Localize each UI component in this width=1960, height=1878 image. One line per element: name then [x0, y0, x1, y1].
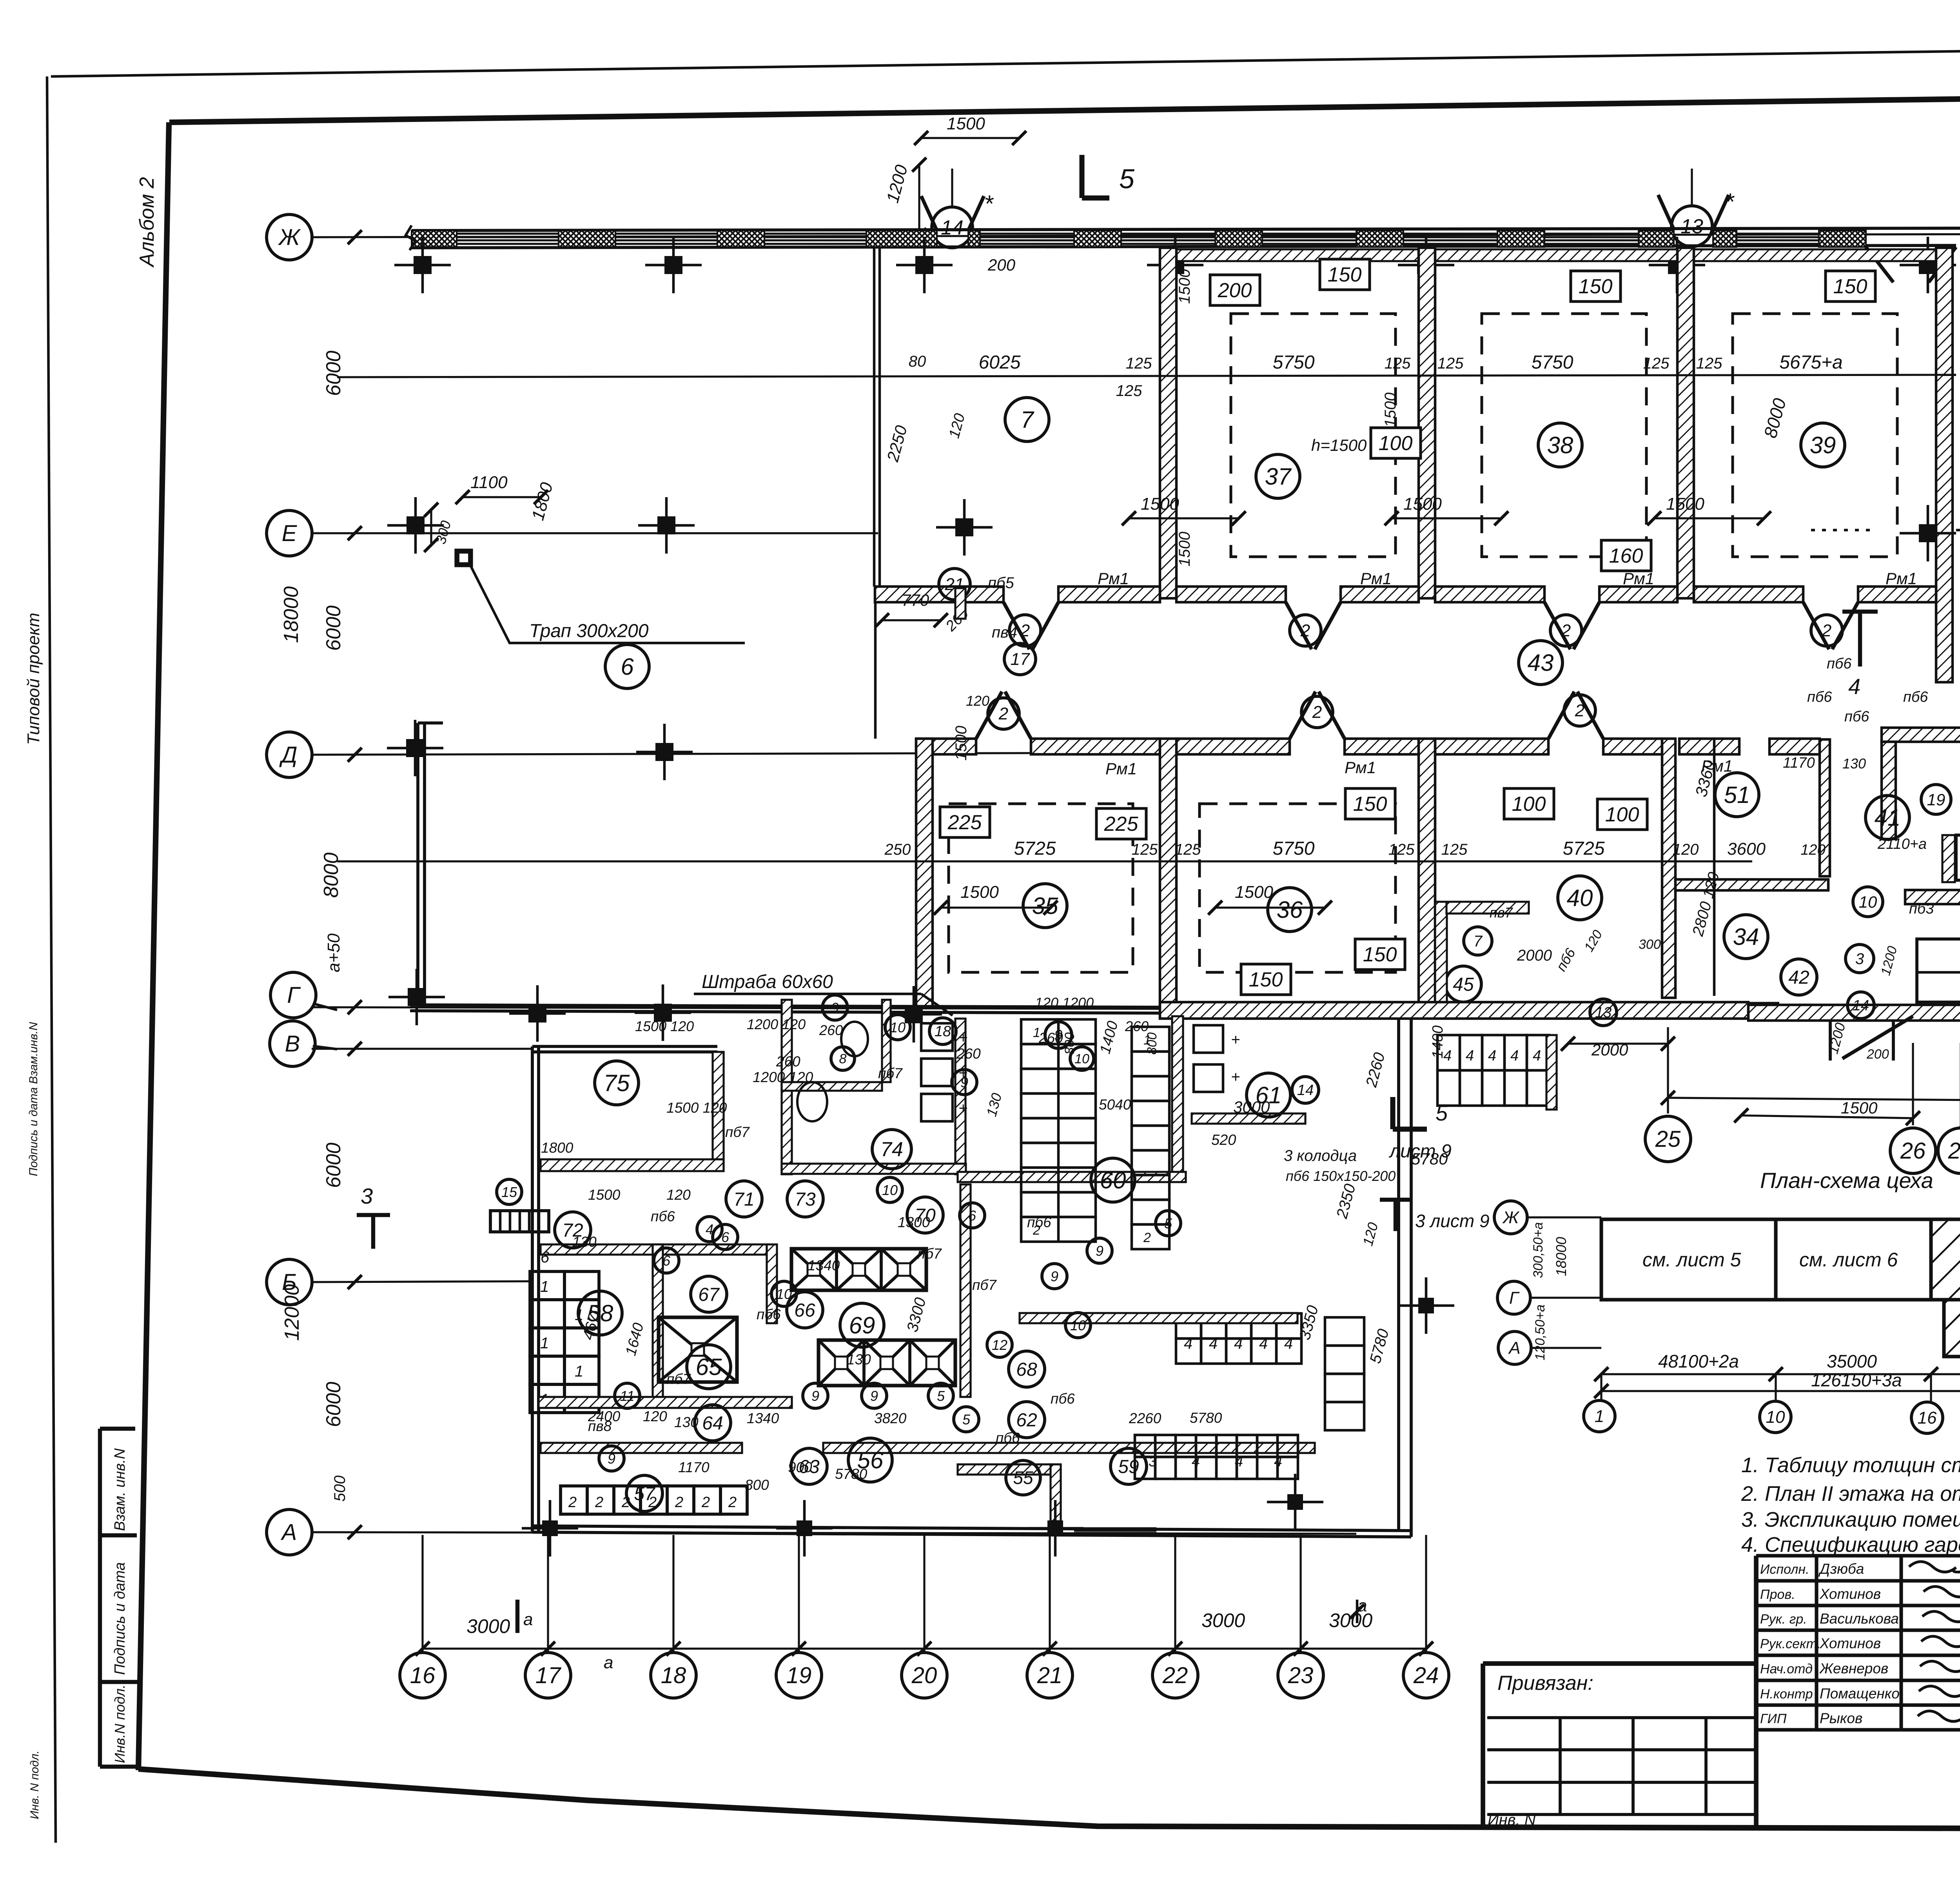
- svg-text:126150+3а: 126150+3а: [1811, 1370, 1902, 1390]
- svg-text:2. План II этажа на отм. 2: 2. План II этажа на отм. 2.780 в осях 27…: [1741, 1482, 1960, 1506]
- svg-text:Ж: Ж: [278, 225, 301, 250]
- svg-text:125: 125: [1126, 355, 1152, 372]
- svg-text:10: 10: [882, 1182, 898, 1198]
- svg-text:Д: Д: [279, 742, 298, 768]
- schema bottom circles: [1584, 1400, 1615, 1432]
- svg-text:80: 80: [909, 353, 926, 370]
- svg-text:68: 68: [1016, 1359, 1037, 1380]
- inner vertical walls: [767, 1244, 777, 1323]
- svg-text:+: +: [958, 1029, 967, 1046]
- svg-text:120 1200: 120 1200: [1035, 995, 1094, 1011]
- entry bottom cluster: [1829, 1019, 1832, 1061]
- svg-text:9: 9: [1096, 1243, 1103, 1259]
- svg-text:69: 69: [849, 1312, 875, 1339]
- svg-text:4: 4: [1209, 1335, 1218, 1352]
- svg-text:2: 2: [568, 1494, 577, 1511]
- svg-text:2: 2: [675, 1494, 683, 1511]
- room 75 walls: [713, 1052, 724, 1159]
- svg-text:1500: 1500: [1235, 883, 1273, 902]
- svg-text:17: 17: [535, 1663, 562, 1688]
- grids 59: [1176, 1313, 1201, 1339]
- svg-text:27: 27: [1948, 1138, 1960, 1164]
- X equipment rows 69: [791, 1249, 926, 1290]
- right-bottom axis circles 25-29: [1645, 1116, 1691, 1162]
- svg-text:Помащенко: Помащенко: [1820, 1685, 1900, 1702]
- svg-text:Рыков: Рыков: [1820, 1710, 1862, 1726]
- svg-text:пб6: пб6: [757, 1306, 781, 1322]
- svg-text:18000: 18000: [280, 586, 303, 643]
- svg-text:Жевнеров: Жевнеров: [1819, 1660, 1888, 1676]
- svg-text:2: 2: [1020, 621, 1030, 640]
- svg-text:125: 125: [1388, 841, 1415, 858]
- stair 52: [1956, 835, 1960, 880]
- svg-text:520: 520: [1211, 1132, 1236, 1148]
- svg-text:43: 43: [1528, 650, 1554, 676]
- svg-text:300,50+а: 300,50+а: [1531, 1222, 1546, 1278]
- svg-text:3000: 3000: [1201, 1609, 1245, 1631]
- svg-text:Ж: Ж: [1502, 1208, 1520, 1227]
- bottom locker row 57: [561, 1486, 587, 1514]
- svg-text:26: 26: [1900, 1138, 1926, 1164]
- wall 39/44: [1936, 248, 1953, 682]
- svg-text:41: 41: [1875, 805, 1901, 831]
- callouts middle: [940, 807, 990, 837]
- svg-text:250: 250: [884, 841, 911, 858]
- svg-text:1200 120: 1200 120: [753, 1069, 813, 1085]
- svg-text:а: а: [523, 1610, 533, 1629]
- svg-text:пб6: пб6: [1844, 708, 1869, 725]
- door openings at axes 14, 13 and near D: [921, 196, 937, 231]
- svg-text:1. Таблицу толщин стен см.: 1. Таблицу толщин стен см. лист 8: [1741, 1453, 1960, 1477]
- section mark 3 right: [1394, 1200, 1397, 1231]
- svg-text:2110+а: 2110+а: [1877, 836, 1927, 852]
- svg-text:500: 500: [331, 1475, 348, 1502]
- wall between room7 and 37: [1160, 248, 1176, 598]
- svg-text:пб6: пб6: [1027, 1214, 1051, 1230]
- svg-text:пб7: пб7: [666, 1371, 691, 1387]
- svg-text:8000: 8000: [320, 852, 343, 898]
- svg-text:2: 2: [1575, 701, 1584, 720]
- svg-text:10: 10: [776, 1286, 792, 1302]
- svg-text:1340: 1340: [747, 1410, 779, 1426]
- svg-text:100: 100: [1605, 803, 1639, 826]
- svg-text:150: 150: [1363, 943, 1397, 966]
- vertical cell strip right: [1325, 1317, 1364, 1346]
- sinks near 61: [1194, 1025, 1223, 1053]
- wall btw cluster and 60: [1172, 1016, 1183, 1174]
- svg-text:130: 130: [1842, 756, 1866, 772]
- svg-text:3 колодца: 3 колодца: [1284, 1147, 1357, 1164]
- svg-text:9: 9: [1054, 1027, 1062, 1044]
- rooms 51/34 column: [1715, 773, 1759, 817]
- svg-text:1500: 1500: [1403, 494, 1442, 514]
- svg-text:8: 8: [839, 1052, 847, 1066]
- svg-text:18: 18: [935, 1023, 951, 1040]
- thickness callouts top band: [1210, 275, 1260, 305]
- svg-text:5780: 5780: [1411, 1150, 1448, 1168]
- svg-text:пб6: пб6: [1051, 1391, 1075, 1407]
- room circles middle: [1023, 884, 1067, 928]
- svg-text:16: 16: [410, 1663, 436, 1688]
- svg-text:2260: 2260: [1129, 1410, 1161, 1426]
- svg-text:19: 19: [786, 1663, 812, 1688]
- svg-text:125: 125: [1643, 355, 1670, 372]
- interior columns hall: [407, 516, 425, 534]
- svg-text:20: 20: [911, 1663, 937, 1688]
- svg-text:2: 2: [1312, 703, 1322, 722]
- svg-text:5750: 5750: [1273, 352, 1315, 373]
- svg-text:150: 150: [1833, 275, 1867, 298]
- horizontal axis lines + circles: [312, 233, 1960, 237]
- svg-text:125: 125: [1116, 382, 1142, 400]
- corridor wall y3680: [541, 1443, 742, 1453]
- room circles block rest: [1009, 1402, 1045, 1438]
- svg-text:130: 130: [572, 1234, 597, 1250]
- svg-text:А: А: [1508, 1339, 1520, 1358]
- svg-text:120: 120: [966, 693, 989, 709]
- svg-text:7: 7: [1474, 933, 1483, 950]
- svg-text:6: 6: [721, 1229, 730, 1245]
- room 55 porch: [958, 1464, 1058, 1475]
- svg-text:Рм1: Рм1: [1886, 569, 1917, 588]
- svg-text:Альбом 2: Альбом 2: [136, 177, 158, 268]
- svg-text:5675+а: 5675+а: [1779, 352, 1843, 373]
- svg-text:40: 40: [1567, 885, 1593, 911]
- svg-text:9: 9: [870, 1388, 878, 1404]
- svg-text:130: 130: [674, 1414, 699, 1430]
- svg-text:71: 71: [733, 1189, 754, 1210]
- middle band walls vertical: [916, 739, 933, 1008]
- svg-text:Пров.: Пров.: [1760, 1587, 1795, 1602]
- svg-text:5040: 5040: [1099, 1097, 1131, 1113]
- svg-text:5750: 5750: [1273, 838, 1315, 859]
- svg-text:2: 2: [595, 1494, 603, 1511]
- svg-text:пб6: пб6: [651, 1208, 675, 1224]
- svg-text:1500: 1500: [1141, 494, 1179, 514]
- svg-text:1: 1: [1595, 1407, 1604, 1426]
- svg-text:10: 10: [1766, 1408, 1785, 1427]
- svg-text:120: 120: [643, 1408, 667, 1424]
- svg-text:пб6: пб6: [996, 1430, 1020, 1446]
- svg-text:1: 1: [575, 1363, 583, 1380]
- svg-text:120: 120: [666, 1187, 691, 1203]
- svg-text:1500: 1500: [953, 726, 970, 761]
- cluster top wall (south of corridor): [1882, 728, 1960, 742]
- svg-text:А: А: [281, 1520, 297, 1545]
- svg-text:Н.контр: Н.контр: [1760, 1687, 1813, 1702]
- svg-text:3 лист 9: 3 лист 9: [1415, 1211, 1490, 1231]
- svg-text:1500: 1500: [1382, 392, 1399, 427]
- svg-text:Г: Г: [287, 983, 301, 1008]
- svg-text:3: 3: [361, 1184, 373, 1208]
- svg-text:пб6: пб6: [1903, 689, 1928, 705]
- svg-text:пв7: пв7: [1490, 904, 1514, 921]
- svg-text:21: 21: [1037, 1663, 1063, 1688]
- svg-text:Дзюба: Дзюба: [1818, 1561, 1864, 1577]
- svg-text:14: 14: [1853, 997, 1869, 1014]
- svg-text:3: 3: [1149, 1453, 1157, 1470]
- svg-text:67: 67: [698, 1284, 720, 1305]
- svg-text:800: 800: [745, 1477, 769, 1493]
- svg-text:14: 14: [1297, 1082, 1314, 1099]
- svg-text:6: 6: [621, 654, 634, 680]
- svg-text:14: 14: [941, 216, 964, 239]
- svg-text:125: 125: [1175, 841, 1201, 858]
- room 65 xbox: [659, 1317, 737, 1382]
- svg-text:Штраба 60х60: Штраба 60х60: [702, 972, 833, 992]
- svg-text:24: 24: [1413, 1663, 1439, 1688]
- svg-text:4: 4: [1488, 1048, 1496, 1064]
- top axis circles 13,14 and marks: [932, 207, 973, 248]
- svg-text:2: 2: [1143, 1230, 1151, 1245]
- svg-text:300: 300: [1639, 937, 1661, 952]
- svg-text:5: 5: [1119, 163, 1135, 194]
- svg-text:2000: 2000: [1517, 947, 1552, 964]
- svg-text:1200 120: 1200 120: [747, 1016, 806, 1032]
- svg-text:36: 36: [1277, 897, 1303, 923]
- svg-text:260: 260: [819, 1022, 843, 1038]
- svg-text:900: 900: [788, 1459, 812, 1475]
- svg-text:1500: 1500: [1841, 1099, 1878, 1117]
- svg-text:пв8: пв8: [588, 1418, 612, 1434]
- svg-text:пб6: пб6: [1807, 689, 1832, 705]
- svg-text:6: 6: [662, 1253, 671, 1269]
- svg-text:9: 9: [1051, 1268, 1058, 1284]
- 61 right wall: [1546, 1035, 1557, 1110]
- trap + label: [458, 552, 470, 564]
- svg-text:пб7: пб7: [878, 1065, 903, 1081]
- svg-text:125: 125: [1132, 841, 1158, 858]
- svg-text:200: 200: [1866, 1047, 1889, 1062]
- svg-text:см. лист 6: см. лист 6: [1799, 1249, 1898, 1271]
- svg-text:66: 66: [794, 1300, 815, 1321]
- svg-text:25: 25: [1655, 1126, 1681, 1152]
- svg-text:5780: 5780: [835, 1466, 867, 1482]
- room circles top band: [1005, 398, 1049, 441]
- svg-text:Е: Е: [282, 521, 298, 546]
- svg-text:42: 42: [1788, 967, 1809, 988]
- svg-text:Взам. инв.N: Взам. инв.N: [112, 1448, 128, 1531]
- svg-text:55: 55: [1013, 1468, 1033, 1488]
- svg-text:6000: 6000: [322, 1142, 345, 1188]
- svg-text:13: 13: [1681, 215, 1703, 238]
- room 60 racks: [1021, 1019, 1096, 1044]
- svg-text:пб3: пб3: [1909, 901, 1934, 917]
- svg-text:15: 15: [501, 1184, 517, 1200]
- svg-text:9: 9: [960, 1074, 968, 1090]
- svg-text:а+50: а+50: [324, 933, 343, 972]
- svg-text:h=1500: h=1500: [1311, 436, 1367, 454]
- svg-text:120,50+а: 120,50+а: [1533, 1304, 1548, 1360]
- svg-text:74: 74: [880, 1138, 903, 1161]
- 1500 dims inside rooms: [1129, 517, 1239, 519]
- svg-text:В: В: [285, 1031, 300, 1057]
- dashed equipment zones 37 38 39: [1231, 314, 1396, 557]
- svg-text:6000: 6000: [322, 1382, 345, 1427]
- svg-text:см. лист 5: см. лист 5: [1642, 1249, 1741, 1271]
- svg-text:120: 120: [1673, 841, 1699, 858]
- svg-text:1500 120: 1500 120: [635, 1018, 694, 1034]
- svg-text:5: 5: [1164, 1215, 1172, 1231]
- svg-text:Василькова: Василькова: [1820, 1611, 1899, 1627]
- svg-text:+: +: [958, 1100, 967, 1117]
- wall 37/38: [1419, 248, 1435, 598]
- svg-text:3000: 3000: [466, 1615, 510, 1637]
- svg-text:5780: 5780: [1190, 1410, 1222, 1426]
- svg-text:9: 9: [608, 1451, 615, 1467]
- svg-text:Подпись и дата Взам.инв.N: Подпись и дата Взам.инв.N: [27, 1022, 40, 1176]
- svg-text:6025: 6025: [979, 352, 1021, 373]
- svg-text:1500: 1500: [947, 114, 985, 133]
- svg-text:пб7: пб7: [972, 1277, 997, 1293]
- walls around 60: [1020, 1313, 1298, 1323]
- svg-text:1100: 1100: [470, 473, 508, 492]
- svg-text:22: 22: [1162, 1663, 1188, 1688]
- cluster inner walls: [1882, 742, 1896, 839]
- columns along north wall: [414, 256, 432, 274]
- sheet outer border: [51, 43, 1960, 76]
- svg-text:ГИП: ГИП: [1760, 1711, 1787, 1726]
- svg-text:1: 1: [540, 1278, 549, 1295]
- svg-text:1500 120: 1500 120: [666, 1100, 727, 1116]
- svg-text:12: 12: [992, 1337, 1007, 1353]
- svg-text:1: 1: [540, 1335, 549, 1352]
- svg-text:Рм1: Рм1: [1345, 758, 1376, 777]
- svg-text:5750: 5750: [1532, 352, 1573, 373]
- middle band top wall: [916, 739, 976, 754]
- svg-text:225: 225: [1104, 813, 1139, 835]
- svg-text:1500: 1500: [588, 1187, 621, 1203]
- svg-text:800: 800: [1145, 1032, 1160, 1055]
- svg-text:Инв.N подл.: Инв.N подл.: [112, 1685, 128, 1763]
- svg-text:Нач.отд: Нач.отд: [1760, 1662, 1813, 1676]
- svg-text:1500: 1500: [960, 883, 999, 902]
- equipment grid right of room 61: [1437, 1035, 1460, 1070]
- svg-text:4: 4: [1284, 1335, 1293, 1352]
- svg-text:1400: 1400: [1430, 1025, 1446, 1059]
- svg-text:5: 5: [962, 1411, 971, 1428]
- svg-text:11: 11: [620, 1388, 634, 1404]
- svg-text:150: 150: [1579, 275, 1613, 298]
- svg-text:200: 200: [987, 256, 1016, 274]
- svg-text:770: 770: [902, 591, 929, 609]
- svg-text:Инв. N: Инв. N: [1488, 1811, 1536, 1829]
- svg-text:4: 4: [1848, 674, 1860, 699]
- schema axis circles: [1494, 1201, 1527, 1234]
- svg-text:4: 4: [1466, 1048, 1474, 1064]
- svg-text:100: 100: [1379, 432, 1413, 455]
- svg-text:13: 13: [1595, 1004, 1612, 1021]
- middle dim line: [337, 860, 1752, 862]
- svg-text:9: 9: [831, 1000, 839, 1016]
- svg-text:4: 4: [1234, 1335, 1243, 1352]
- svg-text:пб7: пб7: [725, 1124, 750, 1140]
- schema outline: [1601, 1219, 1960, 1300]
- svg-text:23: 23: [1288, 1663, 1314, 1688]
- svg-text:6000: 6000: [322, 351, 345, 396]
- svg-text:пб6: пб6: [1827, 656, 1852, 672]
- svg-text:План-схема цеха: План-схема цеха: [1760, 1168, 1933, 1193]
- section mark 3: [371, 1215, 375, 1249]
- svg-text:5725: 5725: [1563, 838, 1605, 859]
- svg-text:10: 10: [1070, 1317, 1086, 1333]
- svg-text:150: 150: [1249, 968, 1283, 991]
- svg-text:Типовой проект: Типовой проект: [24, 613, 43, 745]
- svg-text:150: 150: [1328, 263, 1362, 286]
- svg-text:125: 125: [1385, 355, 1411, 372]
- svg-text:4: 4: [1235, 1453, 1243, 1470]
- svg-text:200: 200: [1218, 279, 1252, 302]
- svg-text:Подпись и дата: Подпись и дата: [112, 1562, 128, 1675]
- stair top-left of block: [490, 1211, 549, 1232]
- svg-text:12000: 12000: [281, 1284, 303, 1341]
- svg-text:260: 260: [776, 1053, 800, 1070]
- interior dim line top band: [337, 375, 1956, 377]
- svg-text:4: 4: [1274, 1453, 1282, 1470]
- svg-text:пб6 150х150-200: пб6 150х150-200: [1286, 1168, 1396, 1184]
- svg-text:6: 6: [541, 1249, 550, 1266]
- svg-text:4: 4: [1533, 1048, 1541, 1064]
- svg-text:45: 45: [1453, 974, 1474, 995]
- svg-text:60: 60: [1100, 1167, 1126, 1193]
- svg-text:57: 57: [634, 1484, 656, 1504]
- svg-text:73: 73: [795, 1189, 816, 1210]
- svg-text:пв4: пв4: [992, 624, 1017, 641]
- svg-text:1300: 1300: [898, 1214, 930, 1230]
- svg-text:4: 4: [1510, 1048, 1519, 1064]
- north exterior wall with windows: [412, 227, 1960, 231]
- wall 38/39: [1677, 248, 1694, 598]
- break mark at west end of north wall: [406, 225, 416, 250]
- svg-text:260: 260: [1125, 1018, 1149, 1034]
- svg-text:2: 2: [998, 704, 1008, 723]
- svg-text:10: 10: [1074, 1052, 1089, 1066]
- svg-text:2: 2: [1561, 621, 1571, 640]
- svg-text:Хотинов: Хотинов: [1819, 1635, 1881, 1651]
- svg-text:3600: 3600: [1727, 839, 1766, 859]
- svg-text:4: 4: [1184, 1335, 1192, 1352]
- svg-text:3000: 3000: [1233, 1098, 1270, 1116]
- svg-text:+: +: [1231, 1068, 1240, 1086]
- svg-text:35000: 35000: [1827, 1351, 1877, 1371]
- svg-text:37: 37: [1265, 463, 1292, 490]
- inner frame: [169, 91, 1960, 122]
- svg-text:1170: 1170: [678, 1459, 710, 1475]
- stub wall corridor entry: [955, 588, 965, 619]
- svg-text:17: 17: [1011, 650, 1030, 669]
- svg-text:4: 4: [1192, 1453, 1200, 1470]
- svg-text:Трап 300х200: Трап 300х200: [529, 621, 649, 641]
- svg-text:130: 130: [847, 1351, 871, 1368]
- svg-text:а: а: [604, 1653, 613, 1672]
- top band bottom wall with doors: [875, 587, 1004, 602]
- svg-text:4. Спецификацию гардеробного: 4. Спецификацию гардеробного оборудовани…: [1741, 1533, 1960, 1557]
- small 9/10 circles sanitary: [822, 995, 848, 1020]
- svg-text:38: 38: [1547, 432, 1573, 458]
- svg-text:6: 6: [968, 1208, 976, 1224]
- svg-text:160: 160: [1609, 545, 1643, 567]
- svg-text:2: 2: [728, 1494, 737, 1511]
- south exterior wall right section: [1748, 1005, 1960, 1021]
- left margin label boxes: [100, 1427, 135, 1431]
- svg-text:Рм1: Рм1: [1105, 759, 1137, 778]
- svg-text:65: 65: [696, 1354, 722, 1380]
- svg-text:Хотинов: Хотинов: [1819, 1586, 1881, 1602]
- svg-text:150: 150: [1353, 793, 1387, 815]
- svg-text:1800: 1800: [541, 1140, 573, 1156]
- svg-text:125: 125: [1696, 355, 1722, 372]
- svg-text:48100+2а: 48100+2а: [1658, 1351, 1739, 1371]
